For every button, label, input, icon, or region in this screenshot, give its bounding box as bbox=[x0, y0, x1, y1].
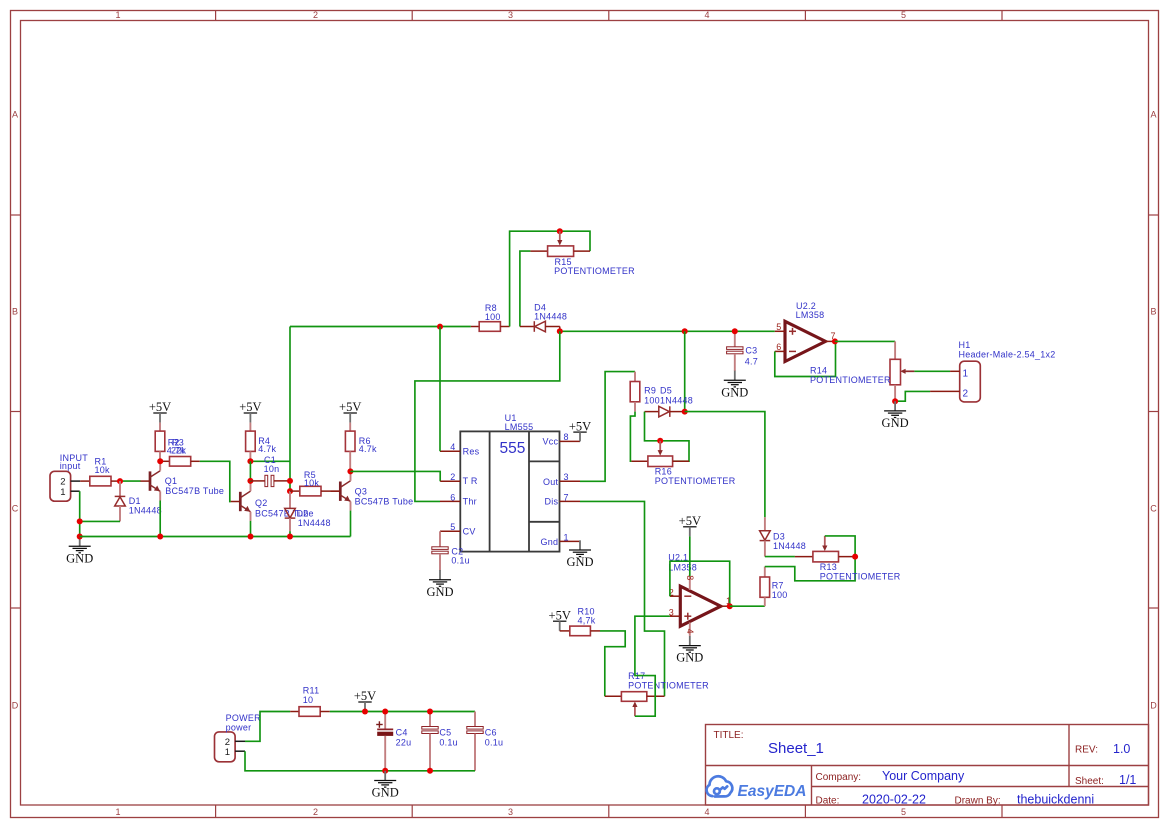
U1 pin 1 Gnd bbox=[560, 540, 581, 542]
svg-text:thebuickdenni: thebuickdenni bbox=[1017, 793, 1094, 807]
wire D3 to R13 left bbox=[765, 556, 795, 558]
svg-text:100: 100 bbox=[644, 395, 660, 405]
power +5V above R10 bbox=[549, 608, 571, 630]
svg-text:POTENTIOMETER: POTENTIOMETER bbox=[628, 681, 709, 691]
wire R14 wiper to H1 pin1 bbox=[914, 370, 950, 372]
wire R13 wiper loop bbox=[825, 536, 855, 557]
svg-text:2: 2 bbox=[313, 10, 318, 20]
svg-text:C6: C6 bbox=[485, 727, 497, 737]
ground below U2.1 bbox=[676, 636, 703, 665]
svg-text:TITLE:: TITLE: bbox=[714, 730, 744, 741]
node junction bbox=[427, 709, 433, 715]
resistor R5 bbox=[290, 470, 340, 496]
ground below C3 bbox=[721, 371, 748, 400]
potentiometer R13 bbox=[795, 536, 901, 581]
frame row ticks right bbox=[1149, 215, 1159, 608]
U1 pin 2 TR bbox=[440, 480, 460, 482]
svg-text:0.1u: 0.1u bbox=[451, 556, 470, 566]
svg-text:1: 1 bbox=[115, 807, 120, 817]
resistor R10 bbox=[560, 607, 600, 636]
capacitor C5 bbox=[422, 712, 458, 771]
node junction bbox=[892, 398, 898, 404]
resistor R8 bbox=[471, 303, 510, 331]
U1 pin 8 Vcc bbox=[560, 440, 581, 442]
node junction bbox=[248, 534, 254, 540]
svg-text:Q2: Q2 bbox=[255, 498, 268, 508]
wire bbox=[249, 461, 251, 481]
node junction bbox=[157, 458, 163, 464]
resistor R6 bbox=[345, 423, 377, 472]
svg-text:555: 555 bbox=[500, 440, 526, 457]
svg-text:B: B bbox=[12, 307, 18, 317]
ground below C4 bbox=[372, 771, 399, 800]
wire bbox=[79, 491, 81, 536]
wire bbox=[159, 501, 161, 537]
wire R15 left to D4 bbox=[520, 251, 531, 326]
svg-text:D: D bbox=[1150, 701, 1157, 711]
svg-text:1.0: 1.0 bbox=[1113, 742, 1130, 756]
power +5V bbox=[339, 400, 361, 422]
diode D2 bbox=[285, 491, 331, 531]
node junction bbox=[427, 768, 433, 774]
ground bbox=[66, 537, 93, 566]
svg-text:0.1u: 0.1u bbox=[485, 738, 504, 748]
potentiometer R14 bbox=[810, 341, 914, 401]
svg-text:Q3: Q3 bbox=[355, 486, 368, 496]
wire bbox=[689, 536, 691, 576]
svg-text:4: 4 bbox=[450, 442, 455, 452]
svg-text:Thr: Thr bbox=[463, 497, 477, 507]
frame row letters bbox=[12, 110, 1158, 711]
wire bbox=[200, 461, 231, 501]
wire bbox=[250, 481, 252, 482]
svg-text:4: 4 bbox=[704, 807, 709, 817]
wire Dis to R17 right bbox=[580, 501, 665, 696]
resistor R7 bbox=[760, 567, 787, 607]
potentiometer R16 bbox=[631, 441, 735, 486]
svg-text:5: 5 bbox=[901, 807, 906, 817]
svg-text:D5: D5 bbox=[660, 386, 672, 396]
wire out to R7 bbox=[730, 605, 765, 607]
svg-text:4.7: 4.7 bbox=[745, 356, 758, 366]
node junction bbox=[247, 478, 253, 484]
svg-text:5: 5 bbox=[450, 522, 455, 532]
svg-text:1N4448: 1N4448 bbox=[773, 541, 806, 551]
node junction bbox=[557, 328, 563, 334]
svg-text:EasyEDA: EasyEDA bbox=[738, 783, 807, 800]
transistor Q2 bbox=[231, 482, 251, 521]
svg-text:10n: 10n bbox=[264, 464, 280, 474]
frame column ticks top bbox=[216, 10, 1002, 20]
svg-text:BC547B Tube: BC547B Tube bbox=[165, 486, 224, 496]
wire bbox=[250, 460, 290, 462]
node junction bbox=[77, 534, 83, 540]
wire down to D5 bbox=[684, 331, 686, 411]
node junction bbox=[117, 478, 123, 484]
node junction bbox=[727, 603, 733, 609]
svg-text:LM555: LM555 bbox=[505, 422, 534, 432]
svg-text:4: 4 bbox=[704, 10, 709, 20]
wire row A left bbox=[290, 326, 471, 328]
svg-text:D: D bbox=[12, 701, 19, 711]
wire to Res pin bbox=[439, 327, 441, 452]
svg-text:Header-Male-2.54_1x2: Header-Male-2.54_1x2 bbox=[959, 349, 1056, 359]
svg-text:3: 3 bbox=[508, 10, 513, 20]
frame column ticks bottom bbox=[216, 805, 1002, 818]
svg-text:3: 3 bbox=[564, 472, 569, 482]
svg-text:CV: CV bbox=[463, 526, 476, 536]
wire R8 to R15 top bbox=[510, 231, 590, 326]
resistor R4 bbox=[246, 423, 277, 462]
node junction bbox=[287, 534, 293, 540]
svg-text:22u: 22u bbox=[396, 738, 412, 748]
svg-text:1: 1 bbox=[963, 368, 969, 379]
svg-text:2: 2 bbox=[313, 807, 318, 817]
U1 pin 4 Res bbox=[440, 450, 460, 452]
wire to Thr bbox=[415, 331, 560, 501]
svg-text:4.7k: 4.7k bbox=[359, 444, 377, 454]
node junction bbox=[557, 228, 563, 234]
svg-text:10k: 10k bbox=[304, 478, 320, 488]
node junction bbox=[732, 328, 738, 334]
node junction bbox=[287, 478, 293, 484]
svg-text:8: 8 bbox=[564, 432, 569, 442]
svg-text:Sheet_1: Sheet_1 bbox=[768, 740, 824, 757]
potentiometer R15 bbox=[530, 231, 635, 276]
svg-text:C: C bbox=[12, 504, 19, 514]
svg-text:1: 1 bbox=[60, 487, 65, 498]
diode D5 bbox=[645, 386, 694, 417]
op-amp U2.1 LM358 bbox=[668, 553, 731, 636]
svg-text:1: 1 bbox=[225, 747, 230, 758]
svg-text:10: 10 bbox=[303, 695, 314, 705]
svg-text:Out: Out bbox=[543, 477, 559, 487]
resistor R11 bbox=[290, 685, 330, 716]
ground on pin 1 bbox=[566, 540, 593, 569]
svg-text:Res: Res bbox=[463, 447, 480, 457]
svg-text:C5: C5 bbox=[439, 727, 451, 737]
svg-text:A: A bbox=[1150, 110, 1156, 120]
resistor R9 bbox=[630, 372, 660, 412]
svg-text:1N4448: 1N4448 bbox=[660, 395, 693, 405]
svg-text:Vcc: Vcc bbox=[543, 437, 559, 447]
wire GND rail bbox=[80, 536, 351, 538]
svg-text:6: 6 bbox=[776, 342, 781, 352]
svg-text:4,7k: 4,7k bbox=[578, 615, 596, 625]
wire POWER pin2 to R11 bbox=[245, 712, 290, 742]
capacitor C4 polarized bbox=[376, 712, 411, 771]
svg-text:R11: R11 bbox=[303, 685, 320, 695]
ground below C2 bbox=[426, 570, 453, 599]
wire H1 pin2 to GND node bbox=[895, 391, 930, 401]
IC U1 LM555 body bbox=[460, 431, 559, 551]
node junction bbox=[347, 468, 353, 474]
power +5V above U2.1 bbox=[679, 514, 701, 536]
wire out to R14 bbox=[835, 340, 895, 342]
connector INPUT bbox=[50, 453, 88, 501]
frame column numbers bbox=[115, 10, 906, 817]
svg-text:Company:: Company: bbox=[816, 772, 862, 783]
node junction bbox=[852, 554, 858, 560]
resistor R2 bbox=[155, 423, 185, 462]
transistor Q3 bbox=[331, 471, 351, 510]
node junction bbox=[682, 409, 688, 415]
svg-text:10k: 10k bbox=[95, 465, 111, 475]
node junction bbox=[382, 709, 388, 715]
power +5V bbox=[239, 400, 261, 422]
svg-text:1N4448: 1N4448 bbox=[129, 505, 162, 515]
svg-text:POWER: POWER bbox=[226, 713, 262, 723]
svg-text:100: 100 bbox=[772, 590, 788, 600]
power +5V flag bbox=[354, 689, 376, 711]
svg-text:4.7k: 4.7k bbox=[258, 444, 276, 454]
svg-text:1N4448: 1N4448 bbox=[534, 311, 567, 321]
svg-text:Gnd: Gnd bbox=[541, 537, 559, 547]
svg-text:22k: 22k bbox=[171, 446, 187, 456]
wire bbox=[80, 520, 120, 522]
wire bbox=[289, 327, 291, 492]
wire bbox=[289, 531, 291, 536]
wire U2.2 feedback bbox=[775, 341, 836, 376]
svg-text:+5V: +5V bbox=[569, 420, 591, 434]
svg-text:1N4448: 1N4448 bbox=[298, 518, 331, 528]
svg-text:R9: R9 bbox=[644, 386, 656, 396]
title block bbox=[706, 724, 1149, 805]
diode D3 bbox=[760, 517, 806, 556]
svg-text:Sheet:: Sheet: bbox=[1075, 776, 1104, 787]
node junction bbox=[682, 328, 688, 334]
svg-text:LM358: LM358 bbox=[668, 563, 697, 573]
node junction bbox=[157, 534, 163, 540]
svg-text:REV:: REV: bbox=[1075, 745, 1098, 756]
node junction bbox=[362, 709, 368, 715]
svg-text:C3: C3 bbox=[745, 346, 757, 356]
svg-text:1: 1 bbox=[115, 10, 120, 20]
svg-text:POTENTIOMETER: POTENTIOMETER bbox=[810, 375, 891, 385]
svg-text:input: input bbox=[60, 461, 81, 471]
node junction bbox=[287, 488, 293, 494]
node junction bbox=[77, 518, 83, 524]
wire Out to R9 bbox=[580, 372, 635, 482]
svg-text:C: C bbox=[1150, 504, 1157, 514]
wire D5 node to D3 bbox=[685, 412, 765, 518]
capacitor C3 bbox=[727, 331, 758, 371]
svg-text:2: 2 bbox=[963, 389, 969, 400]
EasyEDA logo bbox=[707, 776, 733, 796]
svg-text:POTENTIOMETER: POTENTIOMETER bbox=[820, 571, 901, 581]
wire +5V rail top bbox=[330, 711, 475, 713]
svg-text:C4: C4 bbox=[396, 727, 408, 737]
U1 pin 5 CV bbox=[440, 530, 460, 532]
wire R10 to R17 left bbox=[600, 631, 625, 696]
svg-text:POTENTIOMETER: POTENTIOMETER bbox=[554, 266, 635, 276]
svg-text:D2: D2 bbox=[297, 509, 309, 519]
svg-text:1: 1 bbox=[564, 532, 569, 542]
svg-text:5: 5 bbox=[901, 10, 906, 20]
svg-text:power: power bbox=[226, 723, 252, 733]
wire R17 wiper to U2.1 pin3 bbox=[635, 616, 670, 716]
svg-text:Your Company: Your Company bbox=[882, 769, 965, 783]
svg-text:Date:: Date: bbox=[816, 796, 840, 807]
svg-text:100: 100 bbox=[485, 312, 501, 322]
potentiometer R17 bbox=[605, 671, 709, 716]
resistor R1 bbox=[80, 457, 120, 486]
connector H1 bbox=[930, 340, 1055, 402]
svg-text:7: 7 bbox=[564, 492, 569, 502]
wire D5 anode to R16 wiper bbox=[645, 412, 690, 462]
wire bbox=[120, 480, 141, 482]
svg-text:R7: R7 bbox=[772, 581, 784, 591]
svg-text:POTENTIOMETER: POTENTIOMETER bbox=[655, 476, 736, 486]
frame row ticks left bbox=[10, 215, 20, 608]
wire row B bbox=[560, 330, 775, 332]
svg-text:BC547B Tube: BC547B Tube bbox=[355, 497, 414, 507]
diode D1 bbox=[115, 481, 162, 521]
U1 pin 6 Thr bbox=[440, 500, 460, 502]
wire to 555 TR pin bbox=[350, 471, 440, 481]
wire R7 top to R13 right bbox=[765, 557, 855, 581]
node junction bbox=[832, 338, 838, 344]
wire U2.1 feedback bbox=[670, 561, 730, 606]
svg-text:Drawn By:: Drawn By: bbox=[955, 796, 1001, 807]
wire R9 to R16 left bbox=[630, 412, 635, 462]
svg-text:A: A bbox=[12, 110, 18, 120]
capacitor C1 bbox=[250, 455, 290, 487]
capacitor C2 bbox=[432, 531, 470, 570]
U1 pin 3 Out bbox=[560, 480, 581, 482]
node junction bbox=[437, 324, 443, 330]
svg-text:5: 5 bbox=[776, 322, 781, 332]
svg-text:4: 4 bbox=[685, 629, 695, 634]
svg-text:0.1u: 0.1u bbox=[439, 738, 458, 748]
node junction bbox=[382, 768, 388, 774]
svg-text:LM358: LM358 bbox=[796, 310, 825, 320]
node junction bbox=[657, 438, 663, 444]
op-amp U2.2 LM358 bbox=[775, 301, 836, 361]
svg-text:Q1: Q1 bbox=[165, 476, 178, 486]
ground below R14 bbox=[882, 401, 909, 430]
resistor R3 bbox=[160, 437, 200, 466]
svg-text:3: 3 bbox=[669, 607, 674, 617]
transistor Q1 bbox=[140, 461, 160, 500]
svg-text:T R: T R bbox=[463, 476, 478, 486]
svg-text:2: 2 bbox=[450, 472, 455, 482]
connector POWER bbox=[215, 713, 262, 762]
diode D4 bbox=[520, 303, 567, 332]
svg-text:Dis: Dis bbox=[545, 497, 559, 507]
wire bbox=[350, 511, 352, 537]
capacitor C6 bbox=[467, 712, 504, 771]
power +5V bbox=[149, 400, 171, 422]
wire POWER pin1 to gnd rail bbox=[245, 751, 475, 771]
U1 pin 7 Dis bbox=[560, 500, 581, 502]
svg-text:2020-02-22: 2020-02-22 bbox=[862, 793, 926, 807]
node junction bbox=[247, 458, 253, 464]
svg-text:3: 3 bbox=[508, 807, 513, 817]
svg-text:6: 6 bbox=[450, 492, 455, 502]
svg-text:B: B bbox=[1150, 307, 1156, 317]
wire bbox=[250, 521, 252, 537]
svg-text:1/1: 1/1 bbox=[1119, 773, 1136, 787]
